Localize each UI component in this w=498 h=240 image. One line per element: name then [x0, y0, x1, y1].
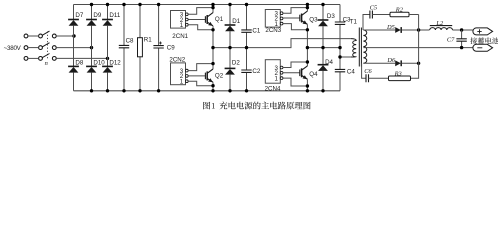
svg-text:D7: D7 [75, 12, 83, 19]
svg-text:2CN2: 2CN2 [169, 56, 185, 63]
diode D3 [322, 5, 324, 48]
svg-text:L2: L2 [435, 20, 444, 27]
transistor Q4 (IGBT) [283, 66, 308, 79]
wire Q4 collector from mid rail [306, 48, 308, 66]
diode D7 [68, 20, 79, 26]
wire Q2 emitter to bottom bus [212, 82, 214, 91]
switch S3 contact circles phase c [24, 57, 28, 61]
transformer T1 primary winding [351, 39, 357, 57]
wire Q2 collector from mid rail [212, 48, 214, 70]
node Q1 collector / pin3 junction [211, 6, 214, 9]
capacitor C4 [339, 48, 341, 91]
switch S1 contact circles phase a [24, 34, 28, 38]
wire C5 riser from secondary top tap [363, 15, 370, 31]
connector 2CN3 [265, 10, 280, 28]
switch gang dashed link [46, 32, 48, 61]
wire phase b to rectifier [56, 47, 91, 49]
diode D11 [102, 20, 113, 26]
wire R2 to snubber vertical [409, 14, 419, 16]
svg-text:D2: D2 [232, 59, 240, 66]
capacitor C3 [339, 5, 341, 48]
svg-text:C2: C2 [252, 68, 260, 75]
wire 2CN2 pin1 loop [188, 81, 213, 86]
wire bottom DC bus [74, 90, 341, 92]
node C7 top junction [460, 28, 463, 31]
node top bus at x=213 [211, 3, 214, 6]
svg-text:D8: D8 [75, 59, 83, 66]
diode D10 [86, 66, 97, 72]
wire phase c to rectifier [56, 57, 107, 59]
switch S1 blade [42, 31, 49, 35]
resistor R1 [139, 5, 141, 91]
wire mid rail right leg [307, 47, 340, 49]
resistor R3 [389, 76, 411, 81]
wire Q3 emitter to mid rail [306, 24, 308, 47]
node top bus at x=307.4 [306, 3, 309, 6]
wire transformer primary bottom to C4 column [340, 56, 351, 58]
svg-text:R1: R1 [144, 37, 152, 44]
svg-text:1: 1 [275, 75, 279, 82]
switch S3 blade [42, 54, 49, 58]
svg-text:C6: C6 [364, 68, 372, 75]
svg-text:C1: C1 [252, 27, 260, 34]
svg-text:D12: D12 [109, 59, 121, 66]
svg-text:Q4: Q4 [309, 71, 318, 78]
node phase b junction [90, 46, 93, 49]
inductor L2 winding [430, 28, 453, 30]
svg-text:R2: R2 [395, 7, 404, 14]
node Q4 emitter / pin1 junction [306, 84, 309, 87]
svg-text:D5: D5 [386, 24, 395, 31]
node Q2 collector / pin3 junction [211, 62, 214, 65]
node D6 output junction [417, 62, 420, 65]
node rectifier bus junctions [90, 3, 93, 6]
node Q2 emitter / pin1 junction [211, 84, 214, 87]
wire secondary center tap to battery minus [363, 47, 473, 49]
diode D12 [102, 66, 113, 72]
wire Q1 collector from top bus [212, 5, 214, 13]
node C7 bottom junction [460, 46, 463, 49]
wire 2CN1 pin3 loop [188, 8, 213, 15]
inductor L2 core line [430, 25, 452, 27]
node mid rail junctions [211, 46, 214, 49]
svg-text:C4: C4 [347, 69, 355, 76]
wire L2 to battery plus [453, 29, 474, 31]
wire 2CN4 pin1 loop [283, 78, 308, 86]
wire C5 to R2 [372, 14, 390, 16]
diode D6 [395, 60, 401, 66]
wire Q1 emitter to mid rail [212, 26, 214, 48]
connector 2CN1 [171, 11, 186, 29]
label 接蓄电池 (connect storage battery) [470, 37, 498, 44]
wire secondary bottom tap to D6 [363, 62, 395, 64]
diode D5 [395, 27, 401, 33]
node Q4 collector / pin3 junction [306, 60, 309, 63]
wire secondary top tap to D5 [363, 29, 395, 31]
capacitor C8 [123, 5, 125, 91]
wire snubber vertical bus [411, 15, 419, 79]
transistor Q1 (IGBT) [188, 13, 213, 26]
capacitor C7 [461, 30, 463, 48]
svg-text:Q1: Q1 [215, 16, 224, 23]
wire top DC bus [74, 4, 341, 6]
wire Q4 emitter to bottom bus [306, 79, 308, 91]
wire C6 to R3 [369, 77, 389, 79]
node bottom bus at x=307.4 [306, 89, 309, 92]
diode D4 [322, 48, 324, 91]
node Q3 collector / pin3 junction [306, 6, 309, 9]
wire 2CN2 pin3 loop [188, 64, 213, 71]
diode D1 [229, 5, 231, 48]
svg-text:1: 1 [180, 22, 184, 29]
svg-text:C7: C7 [447, 36, 455, 43]
connector 2CN4 [265, 60, 280, 83]
svg-text:D9: D9 [93, 12, 101, 19]
svg-text:C8: C8 [126, 37, 134, 44]
wire 2CN4 pin3 loop [283, 62, 308, 68]
resistor R2 [390, 12, 409, 16]
wire D5 cathode to node [402, 29, 430, 31]
node primary bottom junction [338, 55, 341, 58]
transistor Q3 (IGBT) [283, 11, 308, 24]
svg-text:D3: D3 [327, 13, 335, 20]
svg-text:D4: D4 [325, 59, 333, 66]
svg-text:~380V: ~380V [4, 45, 22, 52]
wire switch S3 [28, 57, 39, 59]
diode D8 [68, 66, 79, 72]
node phase a junction [72, 34, 75, 37]
svg-text:2CN1: 2CN1 [172, 33, 188, 40]
wire mid rail left leg [213, 39, 351, 48]
svg-text:2CN4: 2CN4 [265, 85, 281, 92]
wire 2CN3 pin3 loop [283, 8, 308, 14]
svg-text:1: 1 [180, 79, 184, 86]
svg-text:n: n [45, 60, 48, 67]
capacitor C9 electrolytic [158, 5, 160, 91]
diode D9 [86, 20, 97, 26]
wire switch S1 [28, 35, 39, 37]
svg-text:Q3: Q3 [309, 16, 318, 23]
svg-text:D10: D10 [93, 59, 105, 66]
wire rectifier column 2 [91, 5, 93, 91]
node Q1 emitter / pin1 junction [211, 28, 214, 31]
wire C6 riser from secondary bottom tap [362, 63, 366, 78]
wire Q3 collector from top bus [306, 5, 308, 12]
wire switch S2 [28, 47, 39, 49]
svg-text:1: 1 [211, 102, 215, 111]
wire rectifier column 3 [107, 5, 109, 91]
svg-text:Q2: Q2 [215, 72, 224, 79]
connector 2CN2 [171, 63, 186, 85]
wire 2CN1 pin1 loop [188, 25, 213, 30]
diode D2 [229, 48, 231, 91]
transformer T1 secondary winding [363, 30, 366, 63]
node bottom bus at x=213 [211, 89, 214, 92]
wire rectifier column 1 [73, 5, 75, 91]
wire phase a to rectifier [56, 35, 74, 37]
svg-text:D1: D1 [232, 18, 240, 25]
switch S2 contact circles phase b [24, 46, 28, 50]
terminal battery minus [473, 44, 493, 51]
switch S2 blade [42, 43, 49, 47]
svg-text:D11: D11 [109, 12, 120, 19]
transistor Q2 (IGBT) [188, 69, 213, 82]
transformer T1 core [359, 28, 361, 67]
capacitor C1 [246, 5, 248, 48]
svg-text:T1: T1 [350, 18, 358, 25]
svg-text:R3: R3 [394, 70, 402, 77]
svg-text:C9: C9 [167, 45, 175, 52]
node Q3 emitter / pin1 junction [306, 28, 309, 31]
capacitor C2 [246, 48, 248, 91]
node D5 output junction [417, 28, 420, 31]
svg-text:2CN3: 2CN3 [265, 27, 281, 34]
svg-text:C5: C5 [370, 4, 377, 11]
node phase c junction [106, 57, 109, 60]
wire D6 cathode to node [402, 62, 419, 64]
caption 图1 充电电源的主电路原理图 [203, 102, 310, 111]
capacitor C5 [370, 11, 373, 19]
terminal battery plus [473, 28, 493, 35]
wire 2CN3 pin1 loop [283, 24, 308, 30]
capacitor C6 [366, 74, 369, 82]
svg-text:D6: D6 [386, 57, 396, 64]
